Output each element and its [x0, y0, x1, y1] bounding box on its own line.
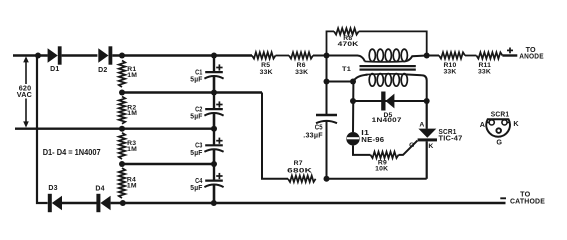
junction R7/C5/K node: [324, 176, 330, 182]
svg-text:TIC-47: TIC-47: [439, 136, 463, 143]
resistor R6: [289, 52, 313, 58]
svg-text:5µF: 5µF: [190, 185, 203, 192]
svg-text:1M: 1M: [127, 146, 137, 153]
svg-text:G: G: [496, 138, 502, 147]
wire D5 row: [353, 100, 427, 102]
wire level-2 corner down to R7: [262, 93, 288, 179]
resistor R11: [476, 52, 502, 58]
svg-text:1M: 1M: [127, 110, 137, 117]
svg-text:33K: 33K: [478, 69, 491, 76]
wire R8 branch up: [327, 31, 335, 55]
resistor R5: [252, 52, 276, 58]
transformer T1 secondary winding: [366, 74, 408, 87]
wire level-3 AC input to C column: [15, 127, 214, 129]
svg-text:470K: 470K: [338, 41, 359, 48]
junction link left: [324, 79, 330, 85]
neon lamp I1: [346, 132, 359, 145]
resistor R1: [119, 61, 125, 88]
wire T1 primary right lead: [406, 56, 427, 62]
junction link right: [350, 79, 356, 85]
svg-text:33K: 33K: [443, 68, 456, 75]
wire T1 secondary right lead: [405, 74, 427, 101]
junction R1 top: [119, 53, 125, 59]
junction C3 bottom: [211, 161, 217, 167]
resistor R7: [288, 176, 316, 182]
svg-text:C5: C5: [315, 124, 323, 131]
wire D2 to R5: [112, 54, 252, 56]
plus polarity mark: [507, 48, 513, 54]
wire left vertical to lower diode row: [37, 56, 48, 204]
SCR1 pinout pin K: [502, 120, 510, 125]
capacitor C1: [204, 56, 223, 93]
capacitor C4: [204, 164, 223, 203]
svg-text:D2: D2: [98, 67, 107, 74]
svg-text:NE-96: NE-96: [361, 137, 384, 144]
transformer T1 core: [360, 65, 416, 71]
wire D1 to D2: [62, 54, 98, 56]
SCR1 symbol: [418, 101, 437, 179]
junction top-left node: [35, 53, 41, 59]
junction R4 top: [119, 161, 125, 167]
resistor R10: [439, 52, 465, 58]
wire cathode row to R7: [327, 178, 427, 180]
svg-text:C1: C1: [195, 70, 203, 77]
svg-text:C4: C4: [195, 178, 203, 185]
diode D4: [96, 194, 110, 212]
wire R10 to R11: [465, 55, 476, 57]
resistor R3: [119, 133, 125, 159]
junction R2 top: [119, 90, 125, 96]
svg-text:5µF: 5µF: [190, 150, 203, 157]
svg-text:1M: 1M: [127, 182, 137, 189]
junction D5 right / SCR anode node: [424, 98, 430, 104]
svg-text:D3: D3: [48, 185, 57, 192]
wire level-4 R3/R4 junction to C column: [122, 163, 214, 165]
junction R6/R8/C5 node: [324, 53, 330, 59]
wire link C5 node to secondary left: [327, 81, 354, 83]
junction C2 bottom: [211, 126, 217, 132]
resistor R9: [371, 152, 399, 158]
svg-text:680K: 680K: [287, 168, 312, 175]
junction primary/R8/R10 node: [424, 53, 430, 59]
wire R8 to right vertical: [359, 31, 427, 55]
wire neon bottom to R9: [353, 145, 371, 155]
junction C4 bottom: [211, 200, 217, 206]
svg-text:A: A: [480, 120, 485, 129]
capacitor C3: [204, 129, 223, 164]
svg-text:CATHODE: CATHODE: [510, 197, 545, 206]
wire R10 lead: [427, 55, 439, 57]
svg-text:D4: D4: [95, 185, 104, 192]
svg-text:R7: R7: [294, 160, 303, 167]
svg-text:33K: 33K: [295, 69, 308, 76]
junction D5 left: [350, 98, 356, 104]
svg-text:C3: C3: [195, 143, 203, 150]
wire R5 to R6: [276, 55, 290, 57]
svg-text:5µF: 5µF: [190, 77, 203, 84]
diode D2: [98, 46, 112, 64]
svg-text:ANODE: ANODE: [519, 52, 544, 61]
transformer T1 primary winding: [365, 49, 408, 62]
wire level-2 R1/R2 junction to C-column and right corner: [122, 91, 262, 93]
svg-text:.33µF: .33µF: [303, 132, 323, 139]
svg-text:I1: I1: [361, 130, 369, 137]
node 620 VAC source arrows: [23, 56, 29, 127]
svg-text:A: A: [419, 121, 424, 128]
svg-text:C2: C2: [195, 107, 203, 114]
resistor R4: [119, 168, 125, 198]
resistor R8: [334, 28, 359, 34]
wire R6 to T1 primary: [313, 56, 365, 62]
capacitor C2: [204, 93, 223, 129]
minus polarity mark: [500, 197, 506, 199]
SCR1 pinout pin G: [496, 128, 501, 133]
junction C1 bottom: [211, 90, 217, 96]
svg-text:D1: D1: [50, 66, 59, 73]
SCR1 pinout package: [486, 119, 510, 137]
svg-text:SCR1: SCR1: [491, 112, 510, 119]
wire bottom rail to cathode terminal: [111, 202, 506, 205]
capacitor C5: [316, 56, 337, 179]
svg-text:1N4007: 1N4007: [372, 117, 402, 124]
svg-text:D1- D4 = 1N4007: D1- D4 = 1N4007: [43, 148, 101, 157]
wire AC input top lead: [13, 54, 48, 56]
svg-text:VAC: VAC: [17, 90, 32, 99]
diode D3: [48, 194, 62, 212]
junction R4 bottom: [120, 200, 126, 206]
svg-text:K: K: [513, 119, 519, 128]
diode D1: [48, 46, 62, 64]
svg-text:5µF: 5µF: [190, 114, 203, 121]
junction C1 top: [211, 53, 217, 59]
svg-text:G: G: [409, 142, 415, 149]
svg-text:K: K: [428, 143, 433, 150]
resistor R2: [119, 97, 125, 124]
wire R9 to SCR gate: [399, 141, 418, 155]
wire T1 secondary left lead: [353, 75, 368, 132]
wire anode terminal: [502, 54, 517, 56]
svg-text:T1: T1: [342, 66, 351, 73]
svg-text:33K: 33K: [260, 69, 273, 76]
junction R3 top: [119, 126, 125, 132]
diode D5: [381, 92, 394, 111]
wire D3 to D4: [62, 202, 97, 204]
svg-text:10K: 10K: [375, 166, 388, 173]
svg-text:1M: 1M: [127, 72, 137, 79]
SCR1 pinout pin A: [486, 120, 494, 125]
svg-text:R6: R6: [297, 62, 306, 69]
